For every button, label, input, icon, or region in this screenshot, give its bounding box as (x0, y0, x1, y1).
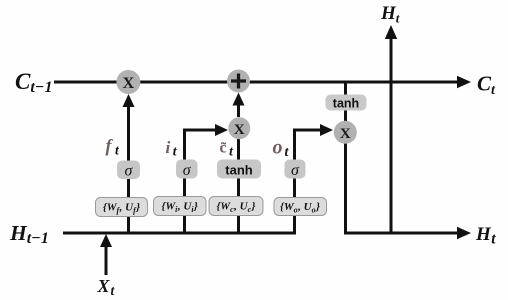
sigma box input gate (176, 160, 198, 180)
arrowhead C_t output (457, 76, 471, 89)
multiply node X3 (334, 121, 357, 144)
arrowhead into multiply node X2 (215, 124, 228, 136)
wire: hidden state vertical to H_t top (390, 36, 393, 233)
tanh box candidate gate (217, 160, 261, 179)
weight box {W_c, U_c} (209, 197, 263, 216)
svg-text:X: X (340, 126, 351, 142)
sigma box output gate (285, 160, 306, 180)
svg-text:tanh: tanh (333, 97, 359, 111)
weight box {W_f, U_f} (96, 198, 148, 217)
weight box {W_i, U_i} (154, 197, 207, 216)
svg-text:tanh: tanh (225, 163, 253, 178)
svg-text:σ: σ (183, 162, 192, 179)
tanh box output branch (326, 95, 367, 111)
wire: X2 to plus node (237, 103, 240, 117)
sigma box forget gate (117, 161, 140, 180)
svg-text:σ: σ (291, 162, 300, 179)
multiply node X1 (116, 70, 140, 94)
arrowhead X_t into H line (100, 234, 112, 247)
arrowhead H_t bottom right (457, 227, 471, 240)
wire: output branch vertical through tanh and X3 (344, 82, 347, 233)
weight box {W_o, U_o} (274, 198, 327, 216)
add node (plus) (227, 70, 250, 93)
arrowhead H_t top (385, 25, 397, 39)
wire: X_t input arrow (105, 244, 108, 275)
multiply node X2 (228, 117, 250, 139)
wire: output gate vertical and elbow to X3 (295, 130, 323, 233)
svg-text:σ: σ (125, 163, 134, 180)
wire: candidate gate vertical below X2 (237, 139, 240, 233)
svg-text:X: X (123, 75, 135, 92)
wire: cell state line C (horizontal) (54, 81, 460, 84)
wire: bottom output line right segment (344, 232, 460, 235)
wire: forget gate vertical (127, 104, 130, 233)
arrowhead into plus node (233, 93, 245, 106)
wire: bottom H(t-1) line left segment (63, 232, 296, 235)
arrowhead into multiply node X1 (123, 94, 135, 107)
wire: input gate vertical and elbow to X2 (185, 130, 218, 233)
arrowhead into multiply node X3 (320, 124, 333, 136)
svg-text:X: X (234, 122, 245, 138)
